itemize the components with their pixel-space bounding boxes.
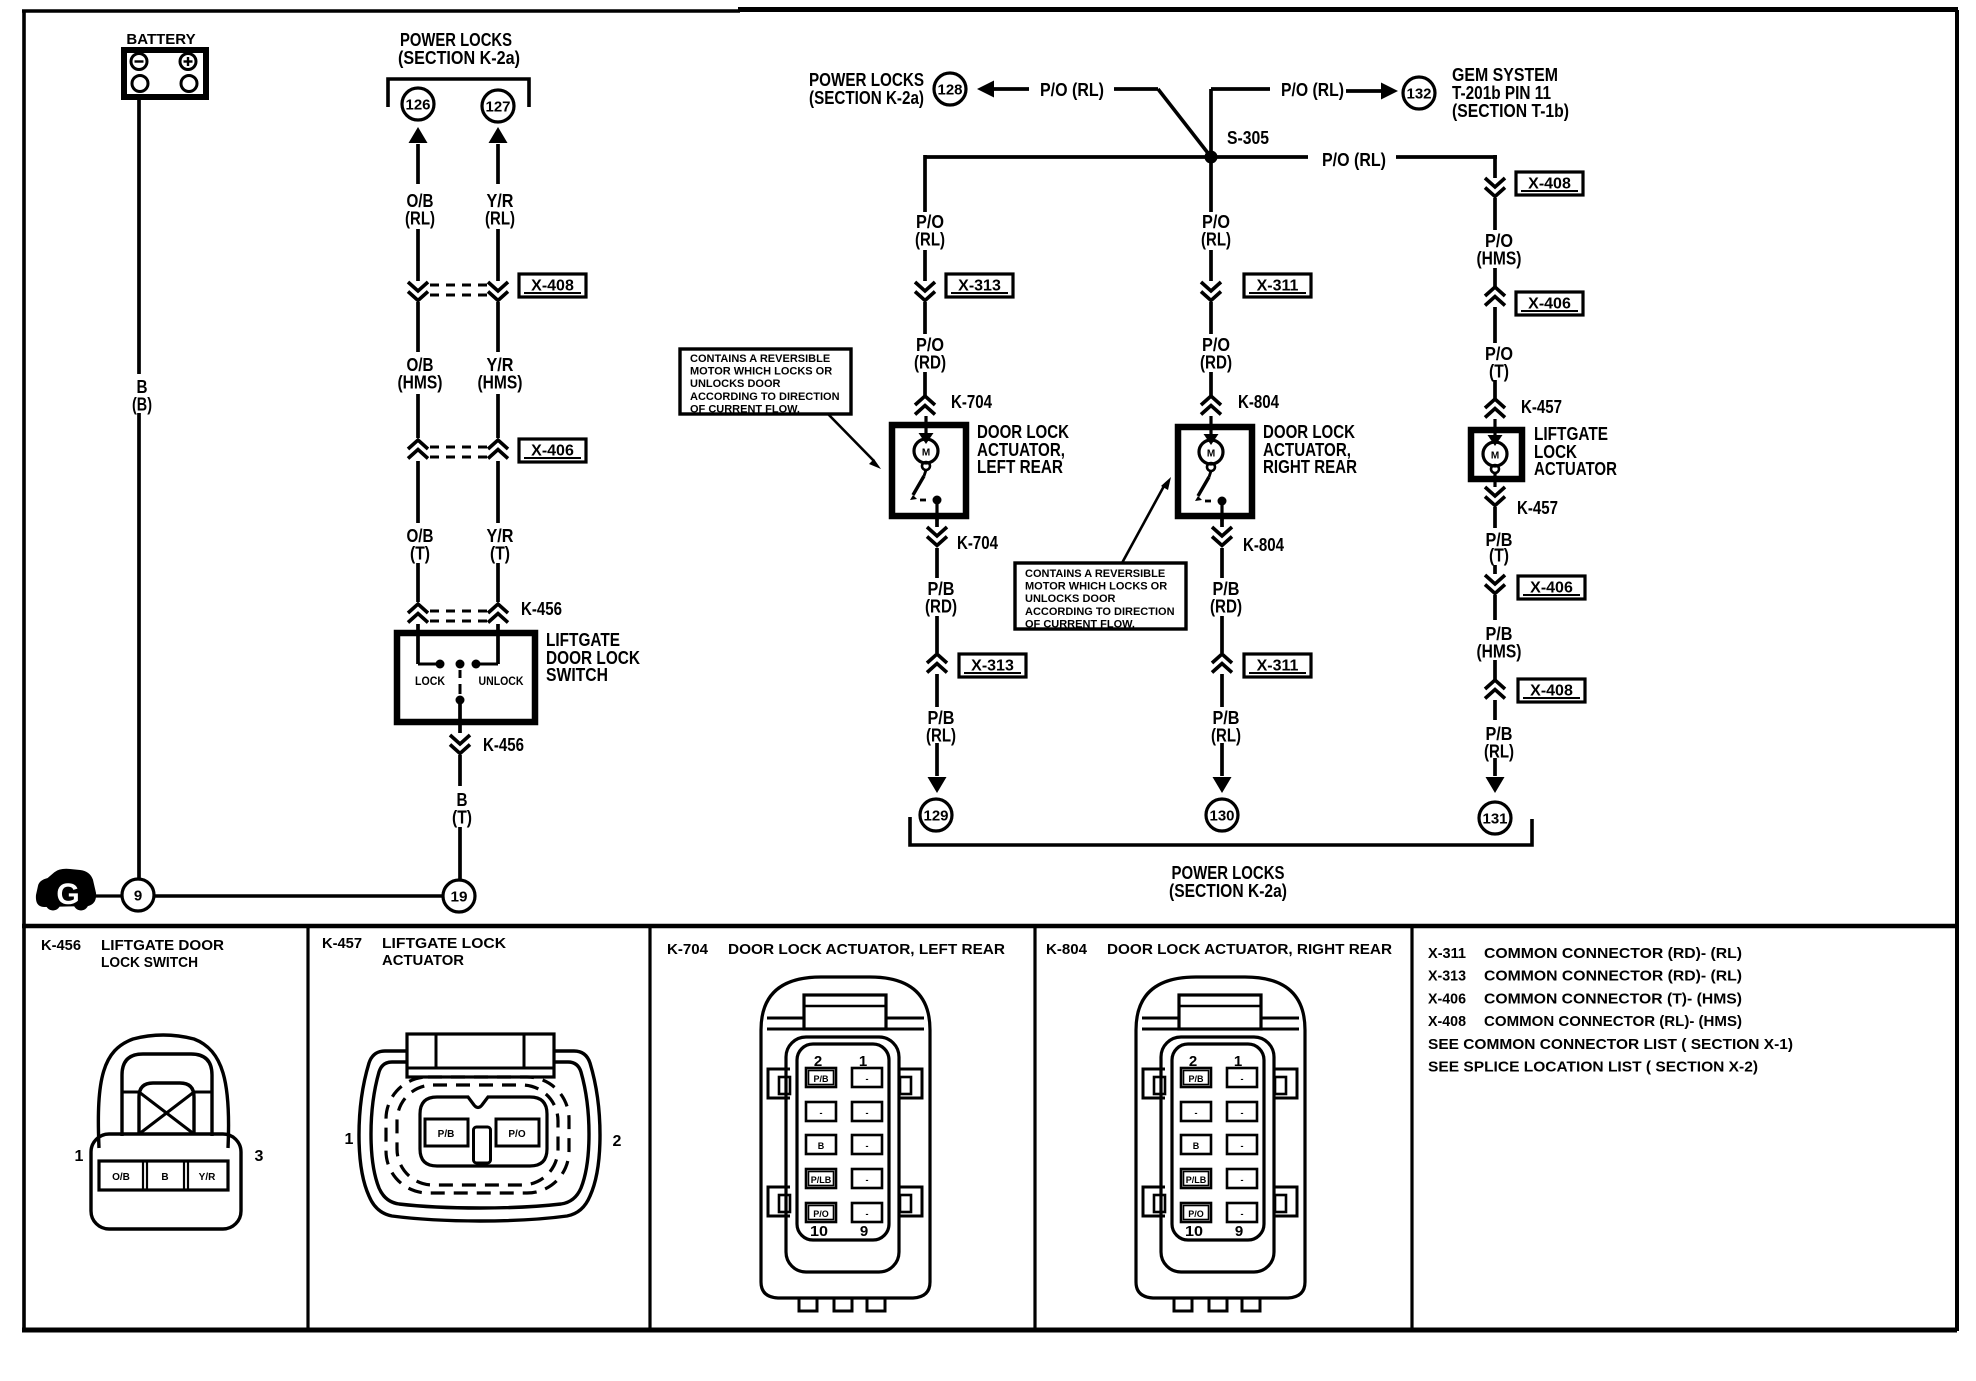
wire ground bus bbox=[154, 894, 443, 897]
wire main bus y157 bbox=[924, 150, 1497, 170]
svg-text:-: - bbox=[866, 1074, 869, 1084]
svg-text:MOTOR WHICH LOCKS OR: MOTOR WHICH LOCKS OR bbox=[690, 366, 832, 378]
connector X-406 branch3 upper bbox=[1485, 287, 1583, 315]
svg-text:(RD): (RD) bbox=[925, 597, 957, 617]
svg-text:Y/R: Y/R bbox=[199, 1172, 216, 1183]
connector X-311 upper bbox=[1201, 274, 1311, 301]
svg-text:SEE SPLICE LOCATION LIST ( SEC: SEE SPLICE LOCATION LIST ( SECTION X-2) bbox=[1428, 1059, 1758, 1076]
svg-text:K-456: K-456 bbox=[483, 735, 524, 755]
svg-text:P/O: P/O bbox=[1188, 1209, 1204, 1219]
node 130 bbox=[1206, 799, 1238, 831]
node POWER LOCKS (SECTION K-2a) header left bbox=[388, 30, 529, 107]
svg-text:9: 9 bbox=[1235, 1223, 1243, 1240]
svg-text:1: 1 bbox=[345, 1131, 354, 1148]
connector K-804 upper bbox=[1201, 392, 1279, 415]
node POWER LOCKS (SECTION K-2a) bottom bracket bbox=[910, 817, 1532, 901]
connector X-406 branch3 lower bbox=[1485, 575, 1585, 599]
svg-text:2: 2 bbox=[613, 1133, 622, 1150]
svg-text:3: 3 bbox=[255, 1148, 264, 1165]
svg-text:B: B bbox=[818, 1141, 825, 1151]
motor actuator K-804 DOOR LOCK ACTUATOR RIGHT REAR bbox=[1178, 416, 1357, 521]
svg-text:1: 1 bbox=[75, 1148, 84, 1165]
connector drawing K-704 bbox=[761, 977, 930, 1311]
svg-text:K-704: K-704 bbox=[957, 533, 998, 553]
svg-text:COMMON CONNECTOR (T)- (HMS): COMMON CONNECTOR (T)- (HMS) bbox=[1484, 990, 1742, 1007]
connector X-408 branch3 lower bbox=[1485, 679, 1585, 702]
svg-text:-: - bbox=[1195, 1108, 1198, 1118]
svg-text:X-313: X-313 bbox=[958, 278, 1001, 295]
wire Y/R column bbox=[485, 127, 515, 281]
svg-text:T-201b PIN 11: T-201b PIN 11 bbox=[1452, 83, 1551, 103]
svg-text:X-408: X-408 bbox=[1428, 1013, 1466, 1030]
svg-text:132: 132 bbox=[1407, 86, 1432, 103]
svg-text:(RL): (RL) bbox=[1201, 230, 1231, 250]
svg-text:(HMS): (HMS) bbox=[1477, 249, 1522, 269]
svg-text:LIFTGATE LOCK: LIFTGATE LOCK bbox=[382, 936, 507, 952]
wire branch3 drop bbox=[1493, 155, 1497, 178]
wire branch1 P/B (RD) bbox=[925, 548, 957, 653]
connector X-408 crossing left bbox=[408, 274, 586, 301]
node 132 GEM SYSTEM bbox=[1403, 65, 1569, 121]
svg-text:SEE COMMON CONNECTOR LIST ( SE: SEE COMMON CONNECTOR LIST ( SECTION X-1) bbox=[1428, 1036, 1793, 1053]
svg-text:(RL): (RL) bbox=[405, 209, 435, 229]
svg-text:126: 126 bbox=[406, 97, 431, 114]
wire branch3 P/B (HMS) bbox=[1477, 595, 1522, 680]
svg-text:SWITCH: SWITCH bbox=[546, 665, 608, 685]
svg-text:(RL): (RL) bbox=[926, 726, 956, 746]
svg-text:(T): (T) bbox=[490, 544, 510, 564]
svg-text:RIGHT REAR: RIGHT REAR bbox=[1263, 457, 1357, 477]
svg-text:K-704: K-704 bbox=[667, 942, 708, 958]
svg-text:DOOR LOCK: DOOR LOCK bbox=[1263, 422, 1355, 442]
node 129 bbox=[920, 799, 952, 831]
svg-text:OF CURRENT FLOW.: OF CURRENT FLOW. bbox=[1025, 618, 1135, 630]
connector K-456 below switch bbox=[450, 735, 524, 755]
svg-text:X-311: X-311 bbox=[1428, 945, 1466, 962]
svg-text:10: 10 bbox=[1185, 1223, 1203, 1240]
svg-text:X-313: X-313 bbox=[1428, 968, 1466, 985]
svg-text:K-804: K-804 bbox=[1046, 942, 1087, 958]
svg-text:POWER LOCKS: POWER LOCKS bbox=[809, 70, 924, 90]
svg-text:127: 127 bbox=[486, 99, 511, 116]
svg-text:(SECTION K-2a): (SECTION K-2a) bbox=[1169, 881, 1287, 901]
wire diagonal to S-305 bbox=[1158, 89, 1211, 157]
svg-text:K-457: K-457 bbox=[322, 936, 362, 952]
svg-text:P/O (RL): P/O (RL) bbox=[1322, 150, 1386, 170]
svg-text:COMMON CONNECTOR (RL)- (HMS): COMMON CONNECTOR (RL)- (HMS) bbox=[1484, 1013, 1742, 1030]
svg-text:O/B: O/B bbox=[112, 1172, 130, 1183]
wire O/B column bbox=[405, 127, 435, 281]
svg-text:(SECTION K-2a): (SECTION K-2a) bbox=[809, 88, 924, 108]
wire branch3 P/O (HMS) bbox=[1477, 198, 1522, 287]
wire branch2 P/O (RD) bbox=[1200, 302, 1232, 396]
note box 1 reversible motor bbox=[680, 349, 881, 469]
node 127 bbox=[482, 90, 514, 122]
svg-text:X-408: X-408 bbox=[1530, 683, 1573, 700]
svg-text:(RD): (RD) bbox=[914, 353, 946, 373]
svg-text:(RL): (RL) bbox=[915, 230, 945, 250]
wire battery B(B) bbox=[132, 100, 152, 879]
svg-text:-: - bbox=[1241, 1209, 1244, 1219]
wire Y/R (HMS) segment bbox=[478, 302, 523, 438]
svg-text:P/O: P/O bbox=[813, 1209, 829, 1219]
note box 2 reversible motor bbox=[1015, 477, 1186, 630]
svg-text:M: M bbox=[1491, 451, 1499, 462]
svg-text:(T): (T) bbox=[1489, 362, 1509, 382]
svg-text:K-804: K-804 bbox=[1243, 535, 1284, 555]
svg-text:X-408: X-408 bbox=[531, 278, 574, 295]
panel K-457 title bbox=[322, 936, 507, 969]
svg-text:-: - bbox=[1241, 1175, 1244, 1185]
svg-text:CONTAINS A REVERSIBLE: CONTAINS A REVERSIBLE bbox=[1025, 568, 1165, 580]
svg-text:LIFTGATE: LIFTGATE bbox=[1534, 424, 1608, 444]
svg-text:DOOR LOCK: DOOR LOCK bbox=[977, 422, 1069, 442]
svg-text:BATTERY: BATTERY bbox=[126, 31, 195, 48]
connector K-704 lower bbox=[927, 519, 998, 553]
panel K-456 title bbox=[41, 938, 225, 971]
svg-text:M: M bbox=[922, 448, 930, 459]
svg-text:ACCORDING TO DIRECTION: ACCORDING TO DIRECTION bbox=[690, 391, 840, 403]
connector X-311 lower bbox=[1212, 654, 1311, 677]
wire branch3 P/B (RL) bbox=[1484, 700, 1514, 793]
wire branch1 P/O (RD) bbox=[914, 302, 946, 396]
svg-text:K-456: K-456 bbox=[41, 938, 81, 954]
svg-text:P/O (RL): P/O (RL) bbox=[1281, 80, 1344, 100]
svg-text:M: M bbox=[1207, 449, 1215, 460]
svg-text:P/O (RL): P/O (RL) bbox=[1040, 80, 1104, 100]
svg-text:X-406: X-406 bbox=[1530, 580, 1573, 597]
svg-text:K-804: K-804 bbox=[1238, 392, 1279, 412]
splice S-305 bbox=[1205, 128, 1270, 164]
wire branch3 P/O (T) bbox=[1485, 307, 1513, 399]
svg-text:-: - bbox=[1241, 1074, 1244, 1084]
wire branch2 P/B (RL) bbox=[1211, 674, 1241, 793]
svg-text:-: - bbox=[866, 1141, 869, 1151]
wire Y/R (T) segment bbox=[487, 461, 514, 602]
svg-text:-: - bbox=[820, 1108, 823, 1118]
node 9 bbox=[95, 879, 154, 911]
svg-text:LIFTGATE: LIFTGATE bbox=[546, 630, 620, 650]
motor actuator K-704 DOOR LOCK ACTUATOR LEFT REAR bbox=[892, 416, 1069, 521]
svg-text:(T): (T) bbox=[1489, 546, 1509, 566]
switch K-456 LIFTGATE DOOR LOCK SWITCH bbox=[397, 624, 640, 733]
svg-text:G: G bbox=[56, 878, 79, 911]
connector X-408 branch3 upper bbox=[1485, 172, 1583, 197]
svg-text:-: - bbox=[1241, 1108, 1244, 1118]
svg-text:X-311: X-311 bbox=[1257, 658, 1299, 675]
svg-text:19: 19 bbox=[451, 889, 468, 906]
node 126 bbox=[402, 88, 434, 120]
svg-text:-: - bbox=[866, 1175, 869, 1185]
svg-text:ACTUATOR: ACTUATOR bbox=[1534, 459, 1617, 479]
svg-text:(HMS): (HMS) bbox=[398, 373, 443, 393]
svg-text:10: 10 bbox=[810, 1223, 828, 1240]
connector K-457 upper bbox=[1485, 397, 1562, 418]
svg-text:P/O: P/O bbox=[508, 1129, 525, 1140]
svg-text:(RD): (RD) bbox=[1210, 597, 1242, 617]
svg-text:DOOR LOCK ACTUATOR, LEFT REAR: DOOR LOCK ACTUATOR, LEFT REAR bbox=[728, 942, 1006, 958]
svg-text:P/B: P/B bbox=[813, 1074, 829, 1084]
svg-text:K-704: K-704 bbox=[951, 392, 992, 412]
svg-text:X-406: X-406 bbox=[1528, 296, 1571, 313]
node 19 bbox=[443, 880, 475, 912]
ground G symbol bbox=[37, 870, 95, 911]
svg-text:(T): (T) bbox=[452, 808, 472, 828]
svg-text:S-305: S-305 bbox=[1227, 128, 1269, 148]
svg-text:ACCORDING TO DIRECTION: ACCORDING TO DIRECTION bbox=[1025, 606, 1175, 618]
svg-text:P/B: P/B bbox=[1188, 1074, 1204, 1084]
wire branch2 P/B (RD) bbox=[1210, 548, 1242, 653]
svg-text:LOCK SWITCH: LOCK SWITCH bbox=[101, 955, 198, 971]
svg-text:9: 9 bbox=[134, 888, 142, 905]
connector X-406 crossing left bbox=[408, 439, 586, 462]
node 131 bbox=[1479, 802, 1511, 834]
svg-text:K-457: K-457 bbox=[1517, 498, 1558, 518]
svg-text:K-456: K-456 bbox=[521, 599, 562, 619]
svg-text:(RL): (RL) bbox=[485, 209, 515, 229]
svg-text:9: 9 bbox=[860, 1223, 868, 1240]
svg-text:B: B bbox=[1193, 1141, 1200, 1151]
svg-text:128: 128 bbox=[938, 82, 963, 99]
svg-text:P/B: P/B bbox=[438, 1129, 455, 1140]
connector drawing K-456 bbox=[75, 1035, 264, 1229]
svg-text:X-311: X-311 bbox=[1257, 278, 1299, 295]
node POWER LOCKS header right / node 128 bbox=[809, 70, 966, 108]
svg-text:(RL): (RL) bbox=[1484, 742, 1514, 762]
svg-text:129: 129 bbox=[924, 808, 949, 825]
svg-text:(SECTION T-1b): (SECTION T-1b) bbox=[1452, 101, 1569, 121]
wire branch3 P/B (T) bbox=[1486, 507, 1513, 574]
connector K-456 crossing bbox=[408, 599, 562, 623]
wire branch1 P/O (RL) bbox=[915, 155, 945, 281]
svg-text:X-408: X-408 bbox=[1528, 176, 1571, 193]
panel K-804 title bbox=[1046, 942, 1393, 958]
connector X-313 upper bbox=[915, 274, 1013, 301]
svg-text:POWER LOCKS: POWER LOCKS bbox=[400, 30, 512, 50]
svg-text:DOOR LOCK ACTUATOR, RIGHT REAR: DOOR LOCK ACTUATOR, RIGHT REAR bbox=[1107, 942, 1393, 958]
svg-text:ACTUATOR: ACTUATOR bbox=[382, 953, 465, 969]
svg-text:130: 130 bbox=[1210, 808, 1235, 825]
motor actuator K-457 LIFTGATE LOCK ACTUATOR bbox=[1471, 419, 1617, 487]
svg-text:CONTAINS A REVERSIBLE: CONTAINS A REVERSIBLE bbox=[690, 353, 830, 365]
wire P/O (RL) to 128 bbox=[977, 80, 1158, 100]
connector drawing K-804 bbox=[1136, 977, 1305, 1311]
wire B (T) bbox=[452, 755, 472, 880]
svg-text:(T): (T) bbox=[410, 544, 430, 564]
svg-text:COMMON CONNECTOR (RD)- (RL): COMMON CONNECTOR (RD)- (RL) bbox=[1484, 968, 1742, 985]
wire vertical above S-305 bbox=[1209, 89, 1213, 157]
connector drawing K-457 bbox=[345, 1034, 622, 1221]
svg-text:-: - bbox=[866, 1108, 869, 1118]
wire branch1 P/B (RL) bbox=[926, 674, 956, 793]
connector K-804 lower bbox=[1212, 519, 1284, 555]
svg-text:(SECTION K-2a): (SECTION K-2a) bbox=[398, 48, 520, 68]
wire O/B (HMS) segment bbox=[398, 302, 443, 438]
svg-text:(HMS): (HMS) bbox=[478, 373, 523, 393]
battery bbox=[124, 31, 206, 97]
svg-text:UNLOCK: UNLOCK bbox=[479, 674, 524, 688]
svg-text:(HMS): (HMS) bbox=[1477, 642, 1522, 662]
svg-text:-: - bbox=[1241, 1141, 1244, 1151]
wire O/B (T) segment bbox=[407, 461, 434, 602]
svg-text:POWER LOCKS: POWER LOCKS bbox=[1172, 863, 1285, 883]
svg-text:(B): (B) bbox=[132, 395, 152, 415]
svg-text:LEFT REAR: LEFT REAR bbox=[977, 457, 1063, 477]
svg-text:X-313: X-313 bbox=[971, 658, 1014, 675]
svg-text:COMMON CONNECTOR (RD)- (RL): COMMON CONNECTOR (RD)- (RL) bbox=[1484, 945, 1742, 962]
svg-text:GEM SYSTEM: GEM SYSTEM bbox=[1452, 65, 1558, 85]
svg-text:OF CURRENT FLOW.: OF CURRENT FLOW. bbox=[690, 403, 800, 415]
svg-text:LIFTGATE DOOR: LIFTGATE DOOR bbox=[101, 938, 225, 954]
svg-text:P/LB: P/LB bbox=[811, 1175, 832, 1185]
svg-text:131: 131 bbox=[1483, 811, 1508, 828]
svg-text:K-457: K-457 bbox=[1521, 397, 1562, 417]
svg-text:UNLOCKS DOOR: UNLOCKS DOOR bbox=[1025, 593, 1116, 605]
connector list text bbox=[1428, 945, 1793, 1076]
svg-text:(RL): (RL) bbox=[1211, 726, 1241, 746]
svg-text:MOTOR WHICH LOCKS OR: MOTOR WHICH LOCKS OR bbox=[1025, 581, 1167, 593]
connector K-457 lower bbox=[1485, 487, 1558, 518]
svg-text:-: - bbox=[866, 1209, 869, 1219]
svg-text:LOCK: LOCK bbox=[415, 674, 445, 688]
svg-text:UNLOCKS DOOR: UNLOCKS DOOR bbox=[690, 378, 781, 390]
svg-text:X-406: X-406 bbox=[531, 443, 574, 460]
connector X-313 lower bbox=[927, 654, 1026, 677]
svg-text:X-406: X-406 bbox=[1428, 990, 1466, 1007]
svg-text:P/LB: P/LB bbox=[1186, 1175, 1207, 1185]
wire P/O (RL) to 132 bbox=[1211, 80, 1398, 100]
connector K-704 upper bbox=[915, 392, 992, 415]
wire branch2 P/O (RL) bbox=[1201, 157, 1231, 281]
panel K-704 title bbox=[667, 942, 1006, 958]
svg-text:B: B bbox=[161, 1172, 168, 1183]
svg-text:(RD): (RD) bbox=[1200, 353, 1232, 373]
